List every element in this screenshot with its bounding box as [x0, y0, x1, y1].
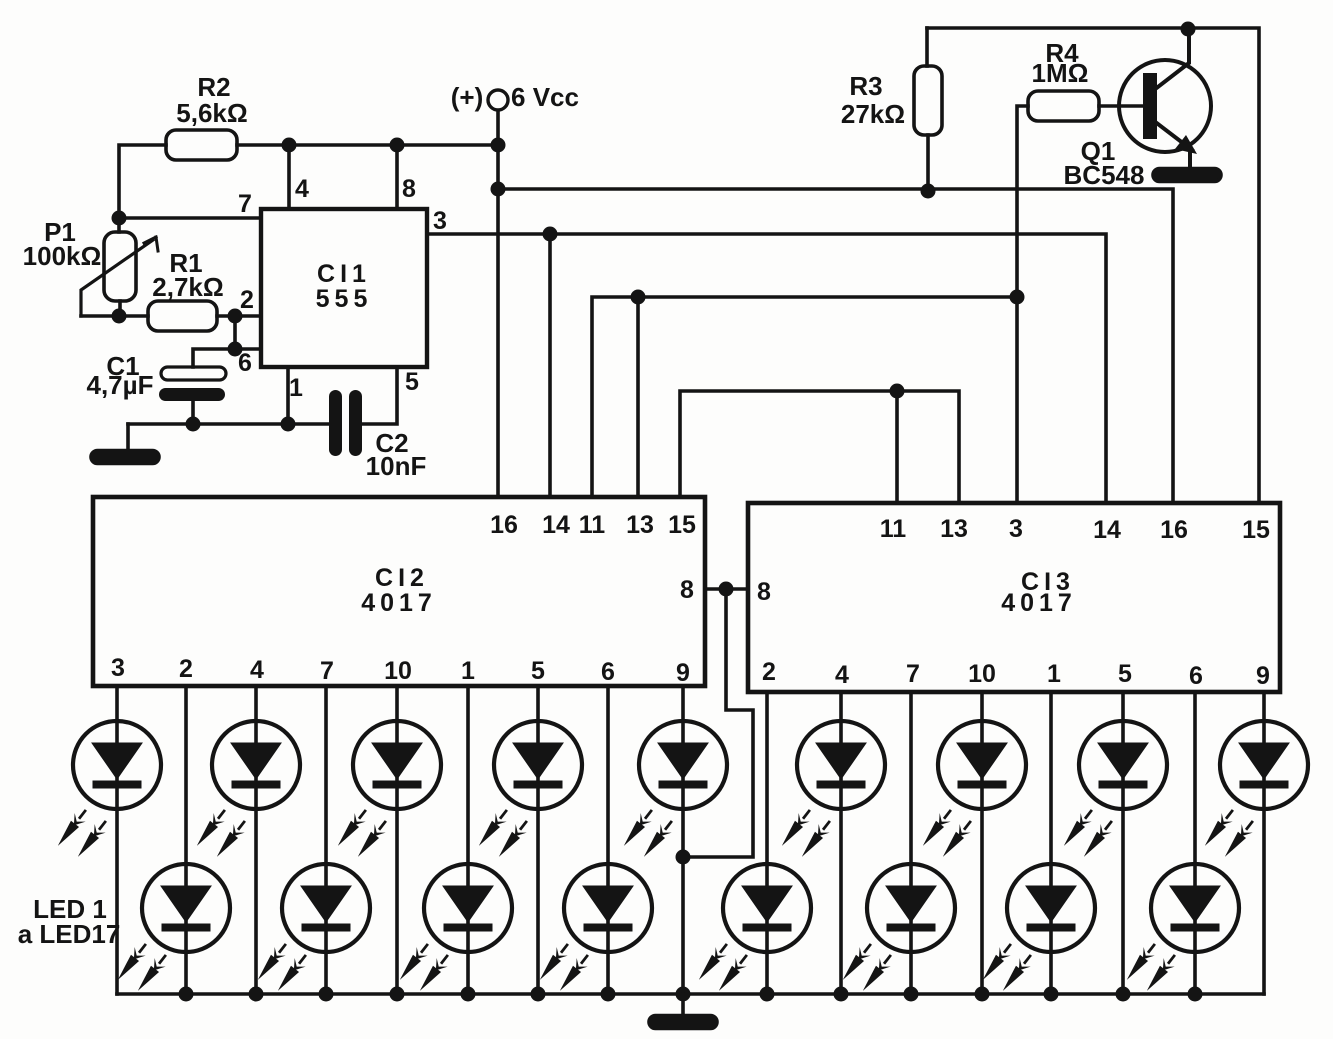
wire CI2 pin13 stub — [636, 297, 640, 497]
wire LED column x841 — [839, 692, 843, 994]
node R3 line A — [921, 184, 936, 199]
node pin6 — [228, 342, 243, 357]
node rail junction x683 — [676, 987, 691, 1002]
svg-text:16: 16 — [490, 511, 518, 539]
svg-text:6: 6 — [601, 658, 615, 686]
node rail junction x1195 — [1188, 987, 1203, 1002]
svg-text:16: 16 — [1160, 516, 1188, 544]
node pin1 — [281, 417, 296, 432]
svg-text:7: 7 — [238, 190, 252, 218]
node pin4 rail — [282, 138, 297, 153]
svg-text:4017: 4017 — [1001, 589, 1077, 617]
svg-text:2: 2 — [240, 286, 254, 314]
wire LED column x683 — [681, 686, 685, 994]
wire ground stub — [681, 994, 685, 1016]
wire LED column x256 — [254, 686, 258, 994]
wire LED column x1264 — [1262, 692, 1266, 994]
wire line D CI2 pin15 to CI3 pin13 — [680, 391, 959, 503]
svg-text:13: 13 — [940, 515, 968, 543]
svg-text:3: 3 — [433, 207, 447, 235]
node pin3/pin14 — [543, 227, 558, 242]
LED7 — [494, 721, 582, 809]
svg-text:2: 2 — [179, 655, 193, 683]
node rail junction x468 — [461, 987, 476, 1002]
wire pin 8 stub — [395, 146, 399, 209]
wire branch to C1 — [193, 349, 235, 367]
LED4 — [282, 864, 370, 952]
svg-text:10nF: 10nF — [366, 451, 427, 481]
wire R3 bottom lead — [926, 135, 930, 191]
wire LED column x326 — [324, 686, 328, 994]
wire wiper bottom to R1 — [81, 314, 148, 318]
LED10 — [723, 864, 811, 952]
wire ground rail — [117, 992, 1264, 996]
wire ground branch — [126, 424, 130, 451]
svg-text:555: 555 — [316, 285, 373, 313]
svg-text:11: 11 — [579, 511, 606, 539]
svg-text:7: 7 — [320, 657, 334, 685]
svg-text:1: 1 — [461, 657, 475, 685]
wire top rail R2 to Vcc — [237, 143, 498, 147]
wire CI2 pin14 stub — [548, 234, 552, 497]
svg-text:15: 15 — [668, 511, 696, 539]
svg-text:7: 7 — [906, 660, 920, 688]
node rail junction x608 — [601, 987, 616, 1002]
node pin2 — [228, 309, 243, 324]
node P1/R1 junction — [112, 309, 127, 324]
svg-text:11: 11 — [880, 515, 907, 543]
svg-text:CI1: CI1 — [317, 260, 371, 288]
IC CI3 4017 box — [748, 503, 1280, 692]
svg-text:R3: R3 — [849, 71, 882, 101]
svg-text:8: 8 — [680, 576, 694, 604]
LED17 — [1220, 721, 1308, 809]
svg-text:100kΩ: 100kΩ — [23, 241, 102, 271]
wire LED column x982 — [980, 692, 984, 994]
svg-text:(+): (+) — [451, 82, 484, 112]
LED16 — [1151, 864, 1239, 952]
svg-text:5: 5 — [1118, 660, 1132, 688]
LED6 — [424, 864, 512, 952]
wire R3 top lead — [925, 28, 929, 66]
ground bottom rail — [649, 1016, 717, 1029]
Q1 collector — [1154, 29, 1189, 90]
ground under C1 — [91, 451, 159, 464]
ground at Q1 emitter — [1153, 169, 1221, 182]
svg-text:a LED17: a LED17 — [18, 919, 121, 949]
svg-text:5,6kΩ: 5,6kΩ — [176, 98, 247, 128]
svg-text:9: 9 — [676, 659, 690, 687]
Q1 emitter — [1154, 121, 1192, 168]
svg-text:10: 10 — [968, 660, 996, 688]
wire R1 to pin 2 — [217, 314, 261, 318]
svg-text:14: 14 — [542, 511, 570, 539]
node rail junction x186 — [179, 987, 194, 1002]
wire LED column x767 — [765, 692, 769, 994]
wire P1 bottom lead — [118, 301, 122, 316]
wire pin1 rail y424 — [128, 422, 329, 426]
LED8 — [564, 864, 652, 952]
wire pin 4 stub — [287, 146, 291, 209]
wire pin 1 stub — [286, 367, 290, 424]
wire LED column x1051 — [1049, 692, 1053, 994]
wire LED column x1195 — [1193, 692, 1197, 994]
wire LED column x186 — [184, 686, 188, 994]
node Vcc rail — [491, 138, 506, 153]
resistor R4 — [1028, 91, 1099, 121]
transistor Q1 — [1119, 60, 1211, 152]
svg-text:CI2: CI2 — [375, 564, 429, 592]
svg-text:1: 1 — [289, 374, 303, 402]
node Vcc branch A — [491, 182, 506, 197]
node pin8 junction — [719, 582, 734, 597]
wire Q1 base lead — [1099, 104, 1143, 108]
wire CI3 pin11 stub — [895, 391, 899, 503]
wire LED column x538 — [536, 686, 540, 994]
wire pin8 to pin8 — [705, 587, 748, 591]
node rail junction x841 — [834, 987, 849, 1002]
svg-text:3: 3 — [1009, 515, 1023, 543]
capacitor C1 — [161, 367, 226, 380]
node rail junction x326 — [319, 987, 334, 1002]
P1 wiper arrow — [81, 240, 153, 316]
wire top rail to CI3 pin15 — [927, 28, 1259, 503]
node rail junction x767 — [760, 987, 775, 1002]
node rail junction x1051 — [1044, 987, 1059, 1002]
svg-text:3: 3 — [111, 654, 125, 682]
LED15 — [1079, 721, 1167, 809]
node line D pin11 — [890, 384, 905, 399]
LED9 — [639, 721, 727, 809]
wire pin 7 of CI1 — [119, 216, 261, 220]
svg-text:6 Vcc: 6 Vcc — [511, 82, 579, 112]
svg-text:4,7µF: 4,7µF — [86, 370, 153, 400]
node rail junction x911 — [904, 987, 919, 1002]
wire pin2 to pin6 vertical — [235, 316, 261, 349]
svg-text:9: 9 — [1256, 662, 1270, 690]
node rail junction x397 — [390, 987, 405, 1002]
node rail junction x256 — [249, 987, 264, 1002]
wire C1 bottom stub — [191, 401, 195, 424]
potentiometer P1 — [104, 232, 136, 301]
wire pin8 ground route — [683, 589, 753, 857]
wire LED column x468 — [466, 686, 470, 994]
node pin8 route to LED column — [676, 850, 691, 865]
svg-text:6: 6 — [1189, 662, 1203, 690]
svg-text:2,7kΩ: 2,7kΩ — [152, 272, 223, 302]
node rail junction x1123 — [1116, 987, 1131, 1002]
svg-text:10: 10 — [384, 657, 412, 685]
svg-text:4: 4 — [250, 656, 264, 684]
wire LED column x397 — [395, 686, 399, 994]
wire LED column x911 — [909, 692, 913, 994]
wire Vcc vertical — [496, 111, 500, 497]
wire R4 vertical to CI3 pin3 — [1017, 106, 1028, 503]
op-amp U1 box CI1 555 — [261, 209, 427, 367]
LED11 — [797, 721, 885, 809]
svg-text:2: 2 — [762, 658, 776, 686]
node line C pin13 — [631, 290, 646, 305]
svg-text:27kΩ: 27kΩ — [841, 99, 905, 129]
node pin8 rail — [390, 138, 405, 153]
capacitor C2 — [329, 390, 342, 456]
svg-text:13: 13 — [626, 511, 654, 539]
wire C2 to pin 5 — [362, 367, 397, 424]
node C1 junction — [186, 417, 201, 432]
node collector top rail — [1181, 22, 1196, 37]
wire line B 555 pin3 to CI3 pin14 — [427, 234, 1106, 503]
svg-text:1MΩ: 1MΩ — [1032, 58, 1089, 88]
wire line C CI2 pin11/13 to CI3 pin3 — [592, 297, 1017, 497]
resistor R3 — [914, 66, 942, 135]
resistor R2 — [166, 130, 237, 160]
svg-text:15: 15 — [1242, 516, 1270, 544]
node rail junction x982 — [975, 987, 990, 1002]
svg-text:4: 4 — [835, 661, 849, 689]
resistor R1 — [148, 301, 217, 331]
wire line A Vcc to CI3 pin16 — [498, 189, 1173, 503]
LED2 — [142, 864, 230, 952]
LED5 — [353, 721, 441, 809]
svg-text:8: 8 — [757, 578, 771, 606]
svg-text:8: 8 — [402, 175, 416, 203]
LED13 — [938, 721, 1026, 809]
svg-text:4: 4 — [295, 175, 309, 203]
LED3 — [212, 721, 300, 809]
svg-text:BC548: BC548 — [1064, 160, 1145, 190]
svg-text:6: 6 — [238, 349, 252, 377]
node rail junction x538 — [531, 987, 546, 1002]
svg-text:5: 5 — [405, 368, 419, 396]
svg-text:14: 14 — [1093, 516, 1121, 544]
svg-text:1: 1 — [1047, 660, 1061, 688]
terminal (+) 6Vcc — [488, 90, 508, 110]
IC CI2 4017 box — [93, 497, 705, 686]
node junction pin7/P1 — [112, 211, 127, 226]
svg-text:4017: 4017 — [361, 589, 437, 617]
LED14 — [1007, 864, 1095, 952]
wire LED column x117 — [115, 686, 119, 994]
node line C R4 — [1010, 290, 1025, 305]
wire R2 left lead down to P1 — [119, 145, 166, 232]
LED1 — [73, 721, 161, 809]
wire LED column x1123 — [1121, 692, 1125, 994]
wire LED column x608 — [606, 686, 610, 994]
svg-text:5: 5 — [531, 657, 545, 685]
LED12 — [867, 864, 955, 952]
